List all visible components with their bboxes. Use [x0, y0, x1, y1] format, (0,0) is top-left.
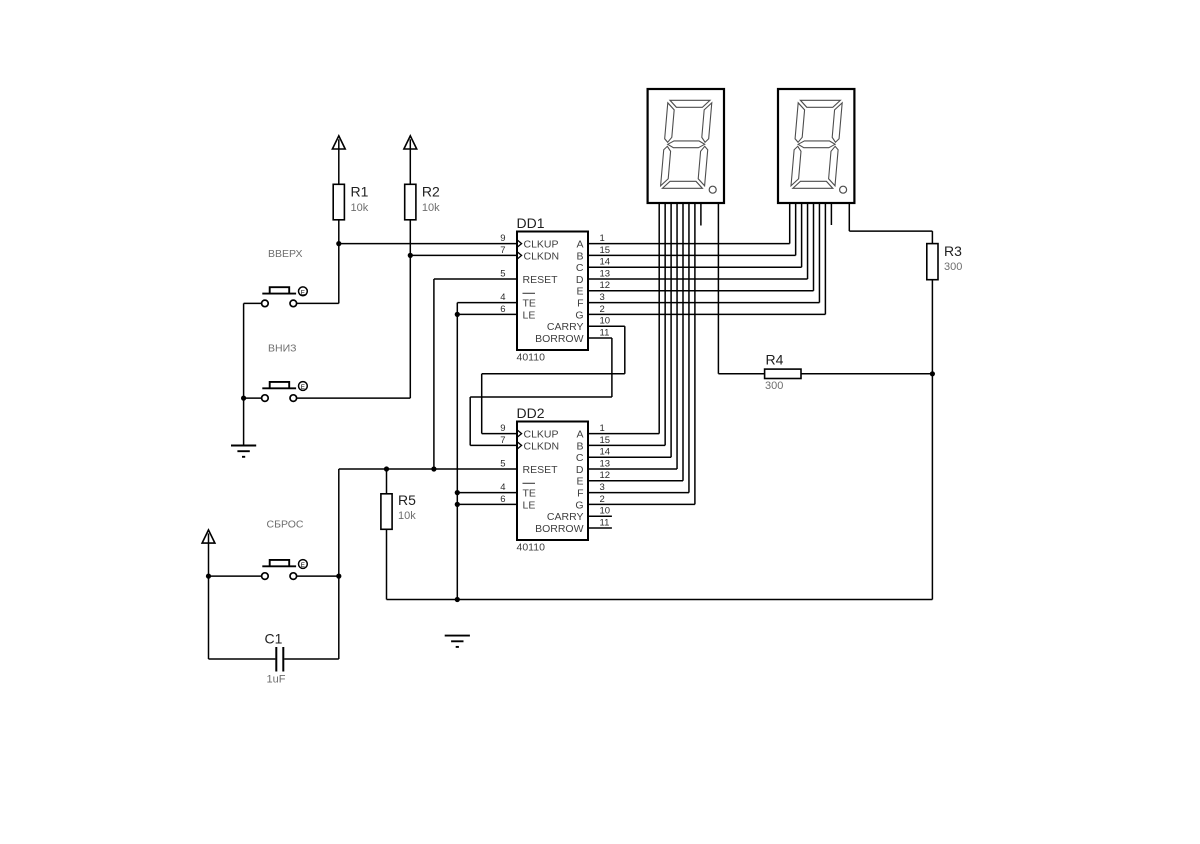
resistor R1 — [333, 149, 344, 244]
svg-text:G: G — [575, 499, 583, 511]
svg-text:4: 4 — [500, 292, 505, 303]
wire DD2 BORROW stub — [588, 527, 612, 529]
svg-text:G: G — [575, 309, 583, 321]
wire DD1 RESET drop — [434, 279, 517, 469]
wire DD1 LE — [457, 313, 517, 315]
svg-text:CLKDN: CLKDN — [524, 440, 560, 452]
node R1-CLKUP junction — [336, 241, 341, 246]
node DD1 LE junction — [455, 312, 460, 317]
power VCC arrow for R2 — [404, 136, 417, 149]
svg-text:ВВЕРХ: ВВЕРХ — [268, 248, 303, 260]
label SBROS — [267, 519, 304, 531]
svg-text:6: 6 — [500, 304, 505, 315]
label C1 — [265, 631, 286, 686]
node DD2 TE junction — [455, 490, 460, 495]
svg-text:40110: 40110 — [517, 542, 546, 554]
svg-text:300: 300 — [944, 261, 962, 273]
display HG2 seven segment — [778, 89, 854, 203]
svg-text:TE: TE — [523, 298, 536, 310]
svg-text:11: 11 — [600, 517, 610, 528]
node left rail ground junction — [241, 396, 246, 401]
svg-text:DD1: DD1 — [517, 215, 545, 231]
svg-text:F: F — [577, 488, 583, 500]
counter DD2 40110 — [500, 405, 610, 554]
label VNIZ — [268, 342, 296, 354]
svg-text:300: 300 — [765, 380, 783, 392]
wire SB3 right to reset net — [297, 469, 339, 576]
svg-text:E: E — [576, 476, 583, 488]
svg-text:F: F — [577, 298, 583, 310]
ground for button rail — [231, 445, 256, 457]
svg-text:C1: C1 — [265, 631, 283, 647]
wire SB1 to CLKUP — [297, 244, 339, 304]
wire C1 left leg — [209, 576, 276, 659]
svg-text:1: 1 — [600, 233, 605, 244]
svg-text:CARRY: CARRY — [547, 321, 584, 333]
pushbutton SB1 VVERH — [262, 287, 308, 307]
node DD1 reset junction — [431, 466, 436, 471]
resistor R2 — [405, 149, 416, 255]
wire DD1 BORROW to DD2 CLKDN — [470, 338, 612, 445]
svg-text:12: 12 — [600, 280, 611, 291]
svg-text:A: A — [576, 429, 583, 441]
svg-text:CARRY: CARRY — [547, 511, 584, 523]
svg-text:D: D — [576, 274, 584, 286]
svg-text:CLKDN: CLKDN — [524, 250, 560, 262]
svg-text:10k: 10k — [398, 510, 416, 522]
wire DD1 segment F to HG2 — [588, 203, 819, 303]
node R4-R3 junction — [930, 371, 935, 376]
svg-text:5: 5 — [500, 458, 505, 469]
wire SB2 to CLKDN — [297, 255, 411, 398]
svg-text:7: 7 — [500, 245, 505, 256]
svg-text:RESET: RESET — [523, 464, 559, 476]
svg-text:9: 9 — [500, 233, 505, 244]
wire DD2 TE — [457, 492, 517, 494]
wire DD2 segment D to HG1 — [588, 203, 677, 469]
wire HG1 common to R4 — [718, 203, 764, 374]
svg-text:BORROW: BORROW — [535, 523, 584, 535]
svg-text:LE: LE — [523, 499, 536, 511]
svg-text:E: E — [301, 289, 305, 296]
wire DD1 segment A to HG2 — [588, 203, 790, 244]
wire left rail to ground — [243, 398, 245, 445]
label R4 — [765, 351, 784, 392]
wire CLKUP net R1 to DD1 — [339, 243, 517, 245]
svg-text:E: E — [576, 286, 583, 298]
counter DD1 40110 — [500, 215, 610, 364]
svg-text:2: 2 — [600, 494, 605, 505]
node R2-CLKDN junction — [408, 253, 413, 258]
label R2 — [422, 184, 440, 214]
svg-text:15: 15 — [600, 435, 611, 446]
svg-text:DD2: DD2 — [517, 405, 545, 421]
svg-text:4: 4 — [500, 482, 505, 493]
svg-text:3: 3 — [600, 482, 605, 493]
power VCC arrow for R1 — [332, 136, 345, 149]
wire DD2 segment F to HG1 — [588, 203, 689, 493]
wire DD2 segment A to HG1 — [588, 203, 659, 434]
power VCC arrow for SB3 reset branch — [202, 530, 215, 543]
svg-text:R3: R3 — [944, 243, 962, 259]
display HG1 seven segment — [648, 89, 724, 203]
svg-text:10: 10 — [600, 316, 611, 327]
svg-text:R4: R4 — [766, 351, 784, 367]
wire CLKDN net R2 to DD1 — [410, 254, 517, 256]
wire DD1 segment C to HG2 — [588, 203, 802, 267]
pushbutton SB2 VNIZ — [262, 382, 308, 402]
svg-text:9: 9 — [500, 423, 505, 434]
svg-text:14: 14 — [600, 257, 611, 268]
svg-text:1: 1 — [600, 423, 605, 434]
svg-text:A: A — [576, 239, 583, 251]
svg-text:B: B — [576, 440, 583, 452]
svg-text:R1: R1 — [351, 184, 369, 200]
svg-text:BORROW: BORROW — [535, 333, 584, 345]
svg-text:TE: TE — [523, 488, 536, 500]
svg-text:10: 10 — [600, 506, 611, 517]
wire HG2 common to R3 — [849, 203, 932, 244]
wire DD1 segment G to HG2 — [588, 203, 825, 314]
wire DD2 segment E to HG1 — [588, 203, 683, 481]
svg-text:RESET: RESET — [523, 274, 559, 286]
svg-text:CLKUP: CLKUP — [524, 239, 559, 251]
wire HG1 decimal point stub — [700, 203, 702, 226]
svg-text:6: 6 — [500, 494, 505, 505]
svg-text:14: 14 — [600, 447, 611, 458]
svg-text:10k: 10k — [351, 202, 369, 214]
svg-text:12: 12 — [600, 470, 611, 481]
wire DD2 CARRY stub — [588, 515, 612, 517]
wire DD1 segment B to HG2 — [588, 203, 796, 255]
label R5 — [398, 492, 416, 522]
svg-text:13: 13 — [600, 458, 611, 469]
wire left rail between buttons — [244, 303, 262, 398]
svg-text:ВНИЗ: ВНИЗ — [268, 342, 296, 354]
svg-text:3: 3 — [600, 292, 605, 303]
wire C1 right leg — [284, 576, 339, 659]
svg-text:5: 5 — [500, 268, 505, 279]
svg-text:C: C — [576, 262, 584, 274]
svg-text:D: D — [576, 464, 584, 476]
svg-text:15: 15 — [600, 245, 611, 256]
svg-text:R5: R5 — [398, 492, 416, 508]
capacitor C1 — [276, 647, 283, 672]
svg-text:B: B — [576, 250, 583, 262]
resistor R4 — [765, 369, 933, 378]
resistor R5 — [381, 469, 392, 600]
wire bottom rail — [387, 599, 933, 601]
wire DD2 segment C to HG1 — [588, 203, 671, 457]
wire DD2 LE — [457, 503, 517, 505]
resistor R3 — [927, 244, 938, 600]
svg-text:2: 2 — [600, 304, 605, 315]
label VVERH — [268, 248, 303, 260]
svg-text:11: 11 — [600, 327, 610, 338]
wire DD1 TE — [457, 303, 517, 600]
svg-text:E: E — [301, 562, 305, 569]
svg-text:10k: 10k — [422, 202, 440, 214]
svg-text:CLKUP: CLKUP — [524, 429, 559, 441]
svg-text:40110: 40110 — [517, 352, 546, 364]
wire VCC to SB3 left — [209, 543, 262, 576]
node SB3 left / C1 junction — [206, 574, 211, 579]
svg-text:LE: LE — [523, 309, 536, 321]
svg-text:СБРОС: СБРОС — [267, 519, 304, 531]
svg-text:E: E — [301, 384, 305, 391]
svg-text:R2: R2 — [422, 184, 440, 200]
node SB3 right junction — [336, 574, 341, 579]
ground for logic rail — [445, 635, 470, 647]
label R3 — [944, 243, 962, 273]
svg-text:13: 13 — [600, 268, 611, 279]
svg-text:7: 7 — [500, 435, 505, 446]
label R1 — [351, 184, 369, 214]
svg-text:C: C — [576, 452, 584, 464]
pushbutton SB3 SBROS — [262, 560, 308, 580]
svg-text:1uF: 1uF — [267, 674, 286, 686]
wire DD2 segment B to HG1 — [588, 203, 665, 445]
wire RESET net — [339, 468, 517, 470]
node TE-LE rail ground junction — [455, 597, 460, 602]
node R5 top junction — [384, 466, 389, 471]
wire DD1 segment E to HG2 — [588, 203, 814, 291]
wire HG2 decimal point stub — [830, 203, 832, 225]
node DD2 LE junction — [455, 502, 460, 507]
wire DD1 segment D to HG2 — [588, 203, 808, 279]
wire DD1 CARRY to DD2 CLKUP — [482, 326, 625, 433]
wire DD2 segment G to HG1 — [588, 203, 695, 504]
